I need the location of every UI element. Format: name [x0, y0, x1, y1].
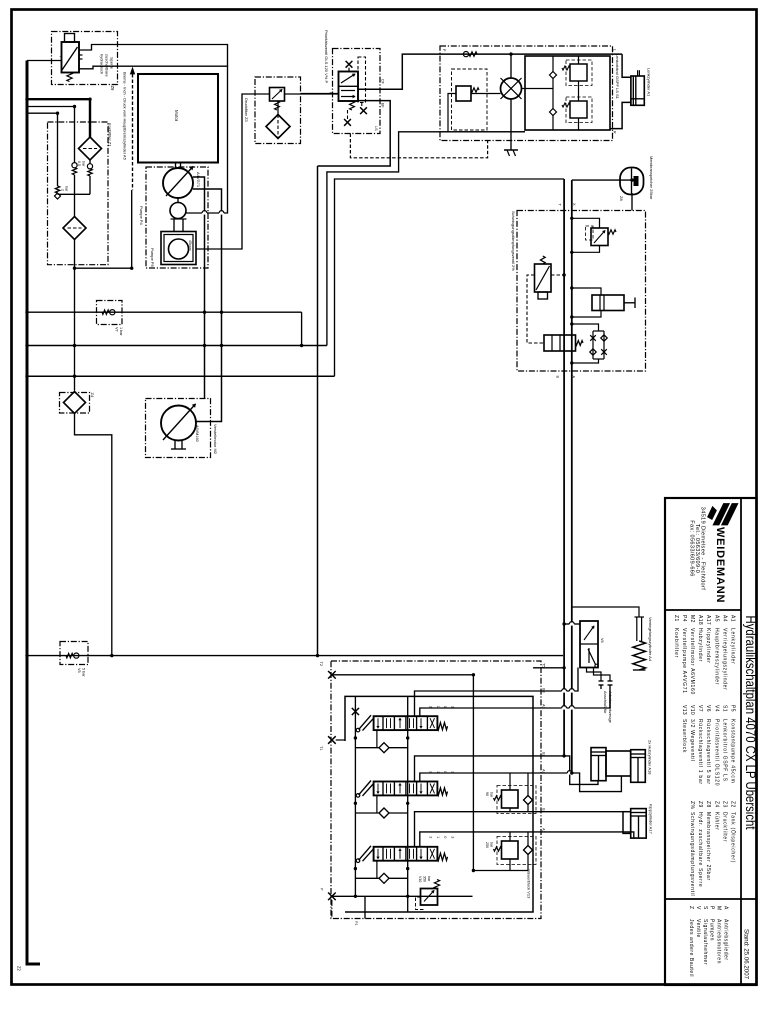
- valve V6 lever: [588, 649, 596, 665]
- svg-text:Koebifilter Z1: Koebifilter Z1: [108, 123, 113, 147]
- svg-text:Antriebsmotoren: Antriebsmotoren: [716, 919, 722, 964]
- wire relief top: [572, 218, 600, 228]
- tank line Z2: [27, 61, 40, 965]
- svg-text:Koebifilter: Koebifilter: [673, 628, 679, 658]
- wire V7 to suction: [301, 312, 303, 345]
- spool 2 lever: [359, 781, 371, 795]
- tank symbol: [504, 149, 518, 151]
- wire accumulator down: [631, 193, 633, 211]
- valve V6 3/2: [580, 621, 598, 668]
- motor M2 enclosure: [146, 399, 211, 458]
- svg-text:Z%: Z%: [689, 801, 695, 809]
- check valve 0.5bar right: [89, 160, 91, 164]
- pump P5: [169, 239, 189, 259]
- svg-text:P: P: [709, 906, 715, 910]
- svg-text:1: 1: [436, 836, 440, 838]
- wire return manifold top 1: [27, 98, 90, 100]
- wire Z9 pilot line: [79, 45, 228, 67]
- wire A2 port: [533, 773, 621, 792]
- wire relief bottom: [572, 246, 600, 253]
- svg-text:bar: bar: [490, 842, 494, 848]
- svg-text:90: 90: [485, 792, 489, 796]
- svg-text:2x Hubzylinder A18: 2x Hubzylinder A18: [648, 740, 653, 775]
- damping spool valve: [544, 335, 576, 351]
- legend section divider: [665, 898, 757, 900]
- wire P5 outlet to filter Z3: [196, 94, 270, 249]
- valve Z9 body: [62, 42, 80, 73]
- svg-text:Sperre: Sperre: [110, 57, 115, 70]
- priority valve spring: [350, 101, 355, 110]
- check-throttle branch: [572, 324, 599, 331]
- control block V13 enclosure: [331, 661, 541, 919]
- spool 1 A gallery: [420, 708, 533, 716]
- svg-text:Druckfilter: Druckfilter: [721, 812, 727, 842]
- wire CF to steering: [358, 54, 622, 89]
- wire V7 line: [27, 311, 302, 313]
- svg-text:M: M: [716, 906, 722, 911]
- svg-text:Steuerblock: Steuerblock: [681, 719, 687, 753]
- wire suction line: [27, 345, 327, 347]
- check valve inlet: [463, 52, 468, 57]
- svg-text:Kühler: Kühler: [713, 812, 719, 831]
- svg-text:Membranspeicher 25bar: Membranspeicher 25bar: [705, 812, 711, 881]
- svg-text:Z9: Z9: [697, 801, 703, 808]
- svg-text:Schwingungsdämpfungsventil 2%: Schwingungsdämpfungsventil 2%: [511, 211, 516, 271]
- valve Z9 spring: [67, 73, 72, 82]
- damping valve enclosure: [517, 211, 646, 372]
- port relief valve 90bar: [502, 790, 519, 808]
- svg-text:Signalaufnehmer: Signalaufnehmer: [702, 919, 708, 965]
- Weidemann logo mark: [713, 504, 730, 526]
- spool 2 B gallery: [415, 756, 534, 782]
- svg-text:Fax: 05633/609-666: Fax: 05633/609-666: [689, 520, 695, 576]
- svg-text:Rückschlagventil 1 bar: Rückschlagventil 1 bar: [697, 719, 703, 785]
- wire A3 port: [533, 689, 610, 708]
- svg-text:A: A: [723, 906, 729, 910]
- spool 1 lever: [359, 715, 371, 729]
- svg-text:1 bar: 1 bar: [119, 327, 123, 336]
- svg-text:Brems - Inch - Druck vom Haupt: Brems - Inch - Druck vom Hauptbremszylin…: [123, 72, 128, 161]
- svg-text:250: 250: [485, 842, 489, 848]
- svg-text:WEIDEMANN: WEIDEMANN: [714, 527, 726, 603]
- motor (Diesel) box: [138, 74, 218, 163]
- throttle right: [360, 107, 367, 114]
- svg-text:bar: bar: [427, 876, 431, 882]
- priority valve pilot box: [358, 57, 366, 103]
- steering cylinder block: [525, 56, 610, 130]
- svg-text:Pumpen: Pumpen: [709, 919, 715, 941]
- svg-text:P1: P1: [354, 921, 358, 926]
- svg-text:Antriebsglieder: Antriebsglieder: [723, 919, 729, 961]
- svg-text:Ventile: Ventile: [695, 919, 701, 938]
- wire X branch: [572, 179, 632, 181]
- check valve V7 enclosure: [97, 301, 123, 325]
- svg-text:Verriegelungszylinder A4: Verriegelungszylinder A4: [648, 617, 653, 662]
- svg-text:A4VG71: A4VG71: [196, 172, 201, 188]
- svg-text:LS: LS: [374, 126, 378, 131]
- spool 1 load check: [355, 747, 378, 749]
- plug spool feed: [352, 708, 359, 715]
- svg-text:Z8: Z8: [705, 801, 711, 808]
- plug T1: [328, 736, 336, 744]
- svg-text:3: 3: [450, 836, 454, 838]
- throttle top: [346, 61, 353, 68]
- brake-inch pilot line A5: [132, 74, 134, 190]
- wire T2 gallery: [332, 674, 474, 676]
- wire steering return: [327, 132, 525, 346]
- charge pump: [170, 203, 186, 219]
- wire Z3 internal: [277, 101, 279, 115]
- svg-text:Verriegelungszylinder: Verriegelungszylinder: [721, 628, 727, 691]
- svg-text:P5: P5: [730, 705, 736, 712]
- svg-text:Pumpe P4: Pumpe P4: [139, 206, 144, 225]
- svg-text:Anschluß für: Anschluß für: [603, 691, 608, 714]
- title column separator: [740, 498, 742, 985]
- svg-text:Lenkzylinder A1: Lenkzylinder A1: [647, 68, 652, 97]
- svg-text:T2: T2: [319, 662, 323, 666]
- wire to oil cooler line: [75, 267, 132, 269]
- wire filter bypass bottom: [58, 193, 91, 195]
- svg-text:bar: bar: [65, 186, 69, 192]
- svg-text:Stand: 25.06.2007: Stand: 25.06.2007: [742, 929, 749, 980]
- spool valve section 1: [374, 716, 438, 730]
- svg-text:0: 0: [443, 836, 447, 838]
- svg-text:3/2 Wegeventil: 3/2 Wegeventil: [689, 719, 695, 762]
- wire P supply to V4: [301, 93, 339, 95]
- priority valve V4 enclosure: [333, 49, 381, 134]
- check valve 2bar: [57, 113, 59, 186]
- wire T gallery vertical: [472, 675, 474, 871]
- svg-text:T5: T5: [542, 663, 546, 667]
- cooler Z4 enclosure: [60, 393, 90, 414]
- svg-text:A1: A1: [730, 615, 736, 622]
- tool coupling 1: [599, 680, 604, 682]
- wire relief to rotor: [471, 93, 501, 95]
- svg-text:EF: EF: [381, 103, 385, 108]
- wire V6 to coupling 1: [587, 668, 602, 682]
- shock valve top: [570, 64, 587, 81]
- svg-text:Z2: Z2: [17, 966, 22, 972]
- check valve V7: [102, 310, 109, 314]
- svg-text:V4: V4: [713, 705, 719, 712]
- wire rotor to tank: [510, 99, 512, 150]
- svg-text:Hauptbremszylinder: Hauptbremszylinder: [713, 628, 719, 685]
- svg-text:P4: P4: [681, 615, 687, 622]
- svg-text:Prioritätsventil OLS 120 V% P: Prioritätsventil OLS 120 V% P: [324, 30, 329, 83]
- svg-text:CF: CF: [381, 79, 385, 85]
- wire shock chain: [578, 56, 580, 64]
- wire Z9 outlet to pump servo: [79, 66, 228, 213]
- damping relief valve: [591, 228, 608, 246]
- throttle bottom: [344, 119, 351, 126]
- svg-text:Lenkzylinder: Lenkzylinder: [730, 628, 736, 664]
- svg-text:S1: S1: [721, 705, 727, 712]
- svg-text:Verstellpumpe A4VG71: Verstellpumpe A4VG71: [681, 628, 687, 694]
- wire inner middle: [522, 88, 554, 90]
- motor M2 (A6VM160): [161, 406, 196, 441]
- svg-text:45ccm: 45ccm: [188, 240, 192, 251]
- pump P5 box: [161, 232, 196, 265]
- wire B2 port: [533, 756, 598, 785]
- cooler Z4: [64, 392, 86, 414]
- damping solenoid valve: [535, 264, 552, 292]
- spool 3 spring: [437, 853, 447, 860]
- wire LS signal: [350, 134, 487, 158]
- spool 2 A gallery: [420, 773, 533, 782]
- crossover hops: [202, 211, 207, 214]
- wire cylinder bottom: [572, 311, 601, 318]
- shock valve bottom: [570, 101, 587, 118]
- plug T2: [328, 671, 336, 679]
- wire P4 work port B: [193, 189, 222, 422]
- svg-text:Kippzylinder A17: Kippzylinder A17: [649, 804, 654, 835]
- lock cylinder A4: [636, 617, 638, 641]
- svg-text:Kippzylinder: Kippzylinder: [705, 628, 711, 664]
- wire steering L line: [622, 54, 631, 77]
- filter Z3 element: [266, 115, 290, 139]
- wire feed vertical 2: [407, 696, 409, 912]
- svg-text:Verstellmotor M2: Verstellmotor M2: [213, 424, 218, 455]
- svg-text:Z3: Z3: [721, 801, 727, 808]
- svg-text:Z: Z: [688, 906, 694, 909]
- spool 3 lever: [359, 846, 371, 860]
- wire T5 port: [533, 667, 564, 669]
- wire filter Z1 outlet: [74, 240, 76, 391]
- tool coupling 2: [608, 680, 613, 682]
- svg-text:2: 2: [429, 836, 433, 838]
- logo section divider: [665, 609, 741, 611]
- svg-text:5 bar: 5 bar: [82, 668, 86, 677]
- wire steering R line: [610, 102, 631, 128]
- svg-text:Pumpe P5: Pumpe P5: [150, 248, 155, 267]
- spool 3 load check: [355, 877, 378, 879]
- wire A4 link: [572, 607, 639, 617]
- spool valve section 3: [374, 847, 438, 861]
- spool 1 spring: [437, 723, 447, 730]
- lift cylinders A18: [591, 748, 606, 781]
- wire EF feed down: [317, 166, 319, 656]
- wire solenoid pilot right: [551, 274, 564, 276]
- svg-text:V13: V13: [681, 705, 687, 715]
- check valve 0.5bar left: [74, 107, 76, 163]
- svg-text:hydraulisch: hydraulisch: [100, 54, 105, 74]
- svg-text:2: 2: [61, 189, 65, 191]
- svg-text:350: 350: [423, 876, 427, 882]
- svg-text:Motor: Motor: [174, 110, 179, 122]
- spool 2 load check: [355, 812, 378, 814]
- svg-text:L: L: [613, 49, 617, 51]
- steering rotor: [501, 78, 522, 99]
- svg-text:Steuerblock V13: Steuerblock V13: [527, 869, 532, 899]
- svg-text:Verstellmotor A6VM160: Verstellmotor A6VM160: [689, 628, 695, 695]
- svg-text:V10: V10: [418, 876, 422, 882]
- svg-text:Lenkorbitrol GSPF LS: Lenkorbitrol GSPF LS: [721, 719, 727, 782]
- pump shaft links: [173, 219, 175, 232]
- svg-text:V5: V5: [77, 668, 81, 673]
- wire T line vertical: [563, 179, 565, 756]
- return filter element: [63, 217, 86, 240]
- wire B1 port: [533, 811, 623, 813]
- wire tank return line: [27, 655, 563, 657]
- wire to V6: [564, 623, 580, 625]
- svg-text:Hydraulikschaltplan 4070 CX LP: Hydraulikschaltplan 4070 CX LP Übersicht: [743, 616, 760, 830]
- wire steering bottom return: [440, 131, 525, 133]
- check valve V5: [66, 653, 73, 657]
- svg-text:A5: A5: [713, 615, 719, 622]
- filter Z1 element: [79, 137, 102, 160]
- svg-text:V6: V6: [600, 638, 604, 643]
- wire P gallery: [332, 895, 473, 897]
- svg-text:Lenkorbitrol GSPF LS S1: Lenkorbitrol GSPF LS S1: [615, 54, 620, 100]
- svg-text:Z4: Z4: [90, 393, 95, 398]
- wire P supply stub: [364, 896, 366, 918]
- svg-text:A6VM160: A6VM160: [195, 425, 199, 442]
- wire P4 work port A: [193, 177, 205, 399]
- wire return to suction: [335, 179, 565, 376]
- control block inner box: [345, 696, 533, 912]
- svg-text:Membranspeicher 25bar: Membranspeicher 25bar: [649, 156, 654, 200]
- svg-text:R: R: [613, 131, 617, 134]
- title block frame: [665, 498, 757, 985]
- spool 2 spring: [437, 788, 447, 795]
- wire V6 to coupling 2: [594, 668, 611, 682]
- spool valve section 2: [374, 782, 438, 796]
- svg-text:A17: A17: [705, 615, 711, 625]
- svg-text:Hubzylinder: Hubzylinder: [697, 628, 703, 662]
- wire cooler outlet: [75, 414, 112, 656]
- svg-text:V7: V7: [115, 327, 119, 332]
- plug P: [328, 893, 336, 901]
- accumulator Z8: [620, 168, 644, 195]
- pump group enclosure: [146, 167, 208, 268]
- wire B3 port: [533, 668, 578, 692]
- svg-text:Prioritätsventil OLS120: Prioritätsventil OLS120: [713, 719, 719, 786]
- wire cylinder top: [572, 288, 601, 295]
- svg-text:A18: A18: [697, 615, 703, 625]
- spool 3 A gallery: [420, 832, 533, 847]
- svg-text:Z9: Z9: [110, 86, 115, 92]
- svg-text:bar: bar: [82, 161, 86, 167]
- priority valve V4 body: [339, 72, 359, 102]
- port relief valve 250bar: [502, 841, 519, 859]
- filter Z1 feed line: [89, 99, 91, 137]
- svg-text:M2: M2: [689, 615, 695, 623]
- svg-text:Jedes andere Bauteil: Jedes andere Bauteil: [688, 919, 694, 977]
- wire A line vertical: [571, 180, 573, 773]
- svg-text:Schwingungsdämpfungsventil: Schwingungsdämpfungsventil: [689, 812, 695, 896]
- filter Z3 enclosure: [255, 77, 301, 144]
- wire feed vertical 1: [354, 696, 356, 896]
- wire A1 port: [533, 832, 634, 838]
- motor shaft: [175, 163, 177, 169]
- spool 3 B gallery: [415, 812, 534, 847]
- pump P4 (A4VG71): [163, 168, 193, 198]
- svg-text:Z2: Z2: [730, 801, 736, 808]
- svg-text:V6: V6: [705, 705, 711, 712]
- steering relief valve: [456, 86, 471, 101]
- spool 1 B gallery: [415, 691, 534, 716]
- check valve V5 enclosure: [60, 642, 88, 665]
- wire solenoid pilot left: [527, 275, 544, 343]
- svg-text:S: S: [702, 906, 708, 910]
- svg-text:Konstantpumpe 45ccm: Konstantpumpe 45ccm: [730, 719, 736, 783]
- relief valve in Z3: [270, 88, 285, 102]
- svg-text:V: V: [695, 906, 701, 910]
- svg-text:V7: V7: [697, 705, 703, 712]
- svg-text:Rückschlagventil 5 bar: Rückschlagventil 5 bar: [705, 719, 711, 785]
- svg-text:Z4: Z4: [713, 801, 719, 808]
- svg-text:bar: bar: [490, 792, 494, 798]
- svg-text:V10: V10: [689, 705, 695, 715]
- svg-text:Druckfilter Z3: Druckfilter Z3: [244, 98, 249, 123]
- wire return manifold top 3: [27, 112, 58, 114]
- svg-text:Z8: Z8: [619, 196, 624, 201]
- steering unit S1 enclosure: [440, 46, 613, 141]
- filter Z1 enclosure: [48, 122, 109, 265]
- damping cylinder: [592, 295, 624, 311]
- anti-cavitation checks: [552, 56, 554, 72]
- svg-text:Tank (Ölspeicher): Tank (Ölspeicher): [730, 812, 737, 863]
- svg-text:T1: T1: [319, 746, 323, 750]
- wire return line: [27, 375, 335, 377]
- svg-text:A4: A4: [721, 615, 727, 622]
- junction dots: [203, 311, 206, 314]
- svg-text:Hydr. zuschaltbare Sperre: Hydr. zuschaltbare Sperre: [697, 812, 703, 887]
- valve Z9 enclosure: [52, 32, 118, 85]
- block bottom dash stub: [331, 900, 333, 919]
- tilt cylinder A17: [623, 812, 631, 834]
- wire EF to work circuit: [318, 101, 391, 166]
- steering cylinder A1: [631, 76, 644, 105]
- wire return manifold top 2: [27, 106, 75, 108]
- svg-text:0,5: 0,5: [77, 161, 81, 166]
- svg-text:Z1: Z1: [673, 615, 679, 622]
- wire tank to Z9 P port: [27, 60, 62, 62]
- main relief V10 350bar: [421, 889, 438, 906]
